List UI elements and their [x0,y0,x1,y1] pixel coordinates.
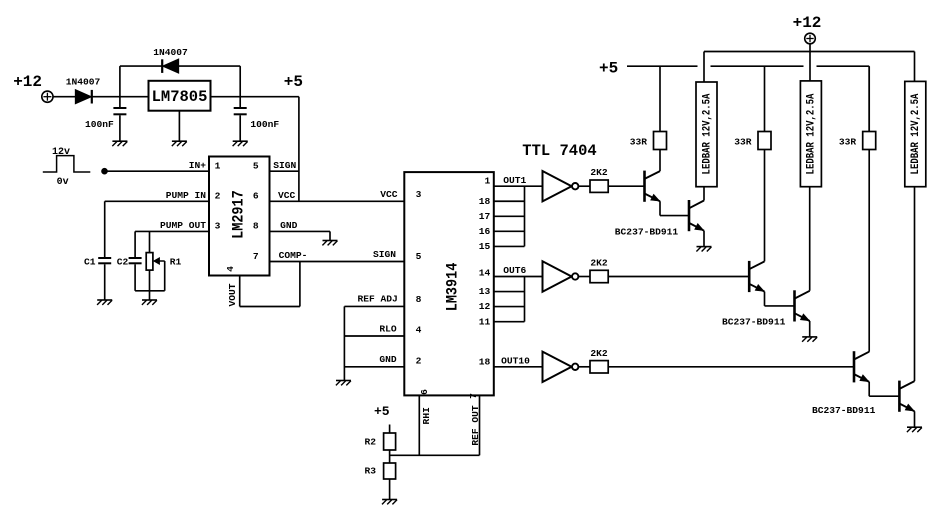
svg-text:OUT1: OUT1 [503,175,526,186]
svg-text:1: 1 [215,161,221,172]
svg-text:LEDBAR 12V,2.5A: LEDBAR 12V,2.5A [910,93,922,175]
svg-text:2: 2 [416,355,422,366]
svg-text:LM2917: LM2917 [231,190,248,239]
svg-text:TTL 7404: TTL 7404 [522,142,596,160]
svg-text:GND: GND [379,354,397,365]
svg-text:3: 3 [215,221,221,232]
svg-text:+12: +12 [13,73,42,91]
svg-text:VCC: VCC [380,189,398,200]
svg-text:0v: 0v [57,177,69,188]
svg-text:VOUT: VOUT [227,283,238,306]
svg-text:R3: R3 [364,466,376,477]
svg-text:LEDBAR 12V,2.5A: LEDBAR 12V,2.5A [702,93,714,175]
svg-text:LM3914: LM3914 [445,263,462,312]
svg-text:11: 11 [479,316,491,327]
svg-text:4: 4 [416,325,422,336]
svg-text:IN+: IN+ [189,160,207,171]
svg-text:15: 15 [479,241,491,252]
svg-text:14: 14 [479,268,491,279]
svg-text:7: 7 [468,393,479,399]
svg-text:7: 7 [253,251,259,262]
svg-text:8: 8 [253,221,259,232]
svg-text:+5: +5 [599,60,618,78]
svg-text:12: 12 [479,301,491,312]
svg-text:C1: C1 [84,257,96,268]
svg-text:PUMP IN: PUMP IN [166,190,207,201]
svg-text:C2: C2 [117,257,129,268]
svg-text:6: 6 [253,191,259,202]
svg-text:RLO: RLO [379,323,397,334]
svg-text:GND: GND [280,220,298,231]
svg-text:33R: 33R [734,136,752,147]
svg-text:2K2: 2K2 [590,348,608,359]
svg-text:COMP-: COMP- [279,250,308,261]
svg-text:R2: R2 [364,437,376,448]
svg-text:RHI: RHI [421,407,432,425]
svg-text:3: 3 [416,189,422,200]
svg-text:+12: +12 [793,14,822,32]
svg-text:SIGN: SIGN [373,249,396,260]
svg-text:LEDBAR 12V,2.5A: LEDBAR 12V,2.5A [806,93,818,175]
svg-text:16: 16 [479,226,491,237]
svg-text:12v: 12v [52,147,70,158]
svg-text:100nF: 100nF [85,119,114,130]
svg-text:100nF: 100nF [250,119,279,130]
svg-text:VCC: VCC [278,190,296,201]
svg-text:PUMP OUT: PUMP OUT [160,220,206,231]
svg-text:LM7805: LM7805 [152,88,208,106]
svg-text:5: 5 [253,161,259,172]
svg-text:BC237-BD911: BC237-BD911 [722,316,786,327]
svg-text:33R: 33R [839,136,857,147]
svg-text:33R: 33R [630,136,648,147]
svg-text:18: 18 [479,196,491,207]
svg-text:13: 13 [479,286,491,297]
svg-text:18: 18 [479,356,491,367]
svg-text:8: 8 [416,294,422,305]
svg-text:REF OUT: REF OUT [470,405,481,446]
svg-text:1N4007: 1N4007 [153,47,188,58]
svg-text:17: 17 [479,211,491,222]
svg-text:1: 1 [485,176,491,187]
svg-text:+5: +5 [284,73,303,91]
svg-text:6: 6 [419,389,430,395]
svg-text:2K2: 2K2 [590,167,608,178]
svg-text:2: 2 [215,191,221,202]
svg-text:REF ADJ: REF ADJ [357,293,397,304]
svg-text:OUT6: OUT6 [503,265,526,276]
svg-text:R1: R1 [170,257,182,268]
svg-text:OUT10: OUT10 [501,356,530,367]
svg-text:2K2: 2K2 [590,258,608,269]
svg-text:BC237-BD911: BC237-BD911 [615,226,679,237]
svg-text:SIGN: SIGN [273,160,296,171]
svg-text:BC237-BD911: BC237-BD911 [812,405,876,416]
svg-text:4: 4 [225,266,236,272]
svg-text:5: 5 [416,251,422,262]
svg-text:+5: +5 [374,404,390,419]
svg-text:1N4007: 1N4007 [66,77,101,88]
